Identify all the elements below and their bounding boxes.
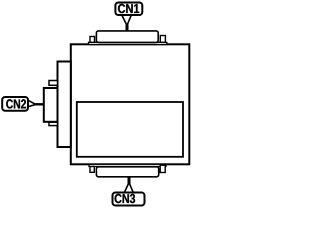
CN2 callout pointer xyxy=(28,100,36,107)
connector CN3 left tab xyxy=(90,167,94,173)
connector CN1 left tab xyxy=(90,37,95,43)
CN2 label box xyxy=(2,97,28,111)
connector CN1 right tab xyxy=(160,36,165,43)
main unit body xyxy=(71,44,190,164)
CN3 label text xyxy=(115,194,136,203)
CN3 callout pointer stem xyxy=(128,178,131,186)
CN1 label text xyxy=(118,4,139,13)
connector CN3 right tab xyxy=(160,165,165,172)
connector CN2 mounting plate xyxy=(58,62,71,148)
CN1 callout pointer xyxy=(122,15,132,26)
connector CN2 housing xyxy=(44,88,58,122)
CN3 callout pointer xyxy=(124,183,134,194)
connector CN3 flange xyxy=(89,164,166,166)
connector CN2 top tab xyxy=(49,81,58,86)
CN2 label text xyxy=(6,99,26,108)
CN1 callout pointer stem xyxy=(126,23,129,31)
inner panel xyxy=(77,102,183,157)
connector CN2 bottom tab xyxy=(49,122,58,125)
connector CN1 bar xyxy=(96,31,158,43)
CN3 label box xyxy=(113,193,145,206)
connector CN3 bar xyxy=(96,167,158,177)
connector CN1 flange xyxy=(89,42,167,44)
CN2 callout pointer stem xyxy=(34,103,43,105)
CN1 label box xyxy=(115,3,142,16)
